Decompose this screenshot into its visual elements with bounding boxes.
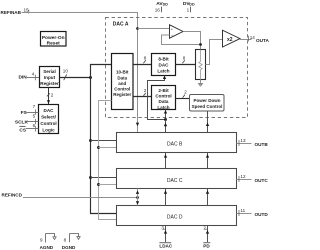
svg-text:PD: PD xyxy=(203,243,210,248)
op-amp x2 output amplifier xyxy=(223,30,241,47)
svg-text:Control: Control xyxy=(155,94,171,99)
ground below resistor string xyxy=(198,80,203,87)
node junction REFINAB at buffer input xyxy=(136,27,139,30)
node LDAC junction xyxy=(164,118,167,121)
wire data bus down to DAC B C D xyxy=(91,78,117,214)
component 10-Bit Data and Control Register xyxy=(112,54,134,110)
block DAC B xyxy=(117,133,237,153)
svg-text:1: 1 xyxy=(187,8,190,13)
svg-text:Speed Control: Speed Control xyxy=(192,104,223,109)
svg-text:DIN: DIN xyxy=(19,75,28,81)
svg-text:Control: Control xyxy=(114,87,130,92)
wire LDAC arrow into 2-bit latch xyxy=(164,110,167,120)
wire 2-bit bus latch to power down control xyxy=(176,90,190,99)
node control stub to DAC B xyxy=(97,146,116,149)
svg-text:Latch: Latch xyxy=(157,105,169,110)
wire control bus from register down to DAC B C D xyxy=(99,101,117,220)
block DAC A dashed box xyxy=(106,18,248,118)
node OUTA pin 14 xyxy=(240,35,270,43)
wire 2-bit bus register to control latch xyxy=(133,88,152,96)
svg-text:DAC: DAC xyxy=(159,63,170,68)
wire CS xyxy=(26,128,39,130)
node REFINAB pin 15 xyxy=(1,8,30,16)
component DAC resistor string R1 xyxy=(196,50,206,80)
box Power-On Reset xyxy=(41,32,67,47)
wire buffer feedback xyxy=(162,35,201,45)
svg-text:9: 9 xyxy=(40,238,43,243)
svg-text:8: 8 xyxy=(64,237,67,242)
node CS pin 6 (active low) xyxy=(19,123,35,134)
svg-text:REFINAB: REFINAB xyxy=(1,10,22,15)
wire 8-bit bus latch to resistor string xyxy=(176,56,196,65)
node control stub to DAC C xyxy=(97,183,116,186)
ground AGND pin 9 xyxy=(40,234,57,250)
component 8-Bit DAC Latch xyxy=(152,54,176,76)
svg-text:4: 4 xyxy=(32,72,35,77)
node DIN pin 4 xyxy=(19,72,36,81)
wire 2-bit to DAC select logic xyxy=(47,88,54,105)
svg-text:CS: CS xyxy=(19,128,26,134)
svg-text:REFINCD: REFINCD xyxy=(2,193,23,198)
wire PD from power down control to DAC B xyxy=(206,111,209,133)
wire 10-bit bus serial register to node xyxy=(60,69,91,81)
node SCLK pin 5 xyxy=(15,114,36,126)
power AVDD pin 16 xyxy=(155,1,169,13)
svg-text:DAC: DAC xyxy=(44,108,55,113)
svg-text:2-Bit: 2-Bit xyxy=(158,88,169,93)
svg-text:AGND: AGND xyxy=(40,245,54,250)
svg-text:13: 13 xyxy=(240,138,246,143)
block DAC C xyxy=(117,169,237,189)
node FS pin 7 xyxy=(21,104,36,116)
power DVDD pin 1 xyxy=(183,1,195,13)
svg-text:16: 16 xyxy=(155,8,161,13)
svg-text:Input: Input xyxy=(44,75,56,80)
wire SCLK xyxy=(27,121,39,123)
svg-text:OUTB: OUTB xyxy=(255,142,269,147)
wire PD between DAC B and DAC C xyxy=(206,153,209,169)
node OUTB pin 13 xyxy=(237,138,269,147)
svg-text:5: 5 xyxy=(33,114,36,119)
svg-text:DD: DD xyxy=(163,3,169,7)
svg-text:14: 14 xyxy=(250,35,256,40)
node PD pin 2 (active low) xyxy=(203,225,210,248)
svg-text:DGND: DGND xyxy=(62,245,76,250)
svg-text:Register: Register xyxy=(40,81,59,86)
svg-text:Select/: Select/ xyxy=(41,114,57,119)
wire REFINCD down into DAC D xyxy=(136,198,139,206)
svg-text:LDAC: LDAC xyxy=(159,243,172,248)
svg-text:2: 2 xyxy=(144,88,147,93)
svg-text:DAC C: DAC C xyxy=(167,178,183,184)
svg-text:12: 12 xyxy=(240,174,246,179)
svg-text:−: − xyxy=(171,33,174,38)
svg-text:Control: Control xyxy=(40,121,56,126)
svg-text:8: 8 xyxy=(183,56,186,61)
node stub to DAC B xyxy=(89,139,116,142)
wire FS xyxy=(26,112,38,114)
svg-text:10: 10 xyxy=(63,69,69,74)
svg-text:DAC D: DAC D xyxy=(167,215,183,221)
wire LDAC arrow into 8-bit latch and jog around control latch xyxy=(148,76,167,120)
node stub to DAC C xyxy=(89,176,116,179)
wire REFINCD xyxy=(23,197,138,199)
svg-text:11: 11 xyxy=(240,208,245,213)
node OUTD pin 11 xyxy=(237,208,269,217)
ground DGND pin 8 xyxy=(62,234,80,250)
wire data bus up into 10-bit register xyxy=(91,65,112,78)
svg-text:15: 15 xyxy=(24,8,30,13)
wire buffer output to resistor string top xyxy=(183,32,201,50)
component Serial Input Register xyxy=(40,67,60,88)
svg-text:DAC A: DAC A xyxy=(113,22,129,28)
svg-text:Serial: Serial xyxy=(43,69,56,74)
op-amp buffer U1 xyxy=(170,25,184,38)
component 2-Bit Control Data Latch xyxy=(152,86,176,110)
svg-text:2: 2 xyxy=(184,90,187,95)
svg-text:Power-On: Power-On xyxy=(42,35,65,41)
svg-text:6: 6 xyxy=(33,123,36,128)
component Power Down Speed Control xyxy=(190,95,225,112)
svg-text:Reset: Reset xyxy=(47,41,60,47)
svg-text:Power Down: Power Down xyxy=(193,98,220,103)
svg-text:Data: Data xyxy=(159,99,169,104)
wire REFINAB to DAC A buffer and down to DAC B xyxy=(22,13,140,133)
wire LDAC down to DAC B xyxy=(164,120,167,133)
svg-text:SCLK: SCLK xyxy=(15,119,29,125)
wire 8-bit bus register to DAC latch xyxy=(133,56,152,65)
svg-text:x2: x2 xyxy=(227,37,233,43)
node bus junction xyxy=(89,76,92,79)
svg-text:3: 3 xyxy=(161,225,164,230)
svg-text:7: 7 xyxy=(33,104,36,109)
svg-text:10-Bit: 10-Bit xyxy=(116,70,129,75)
svg-text:OUTA: OUTA xyxy=(256,38,269,43)
node OUTC pin 12 xyxy=(237,174,269,183)
svg-text:Register: Register xyxy=(113,92,131,97)
svg-text:2: 2 xyxy=(51,92,54,97)
svg-text:OUTD: OUTD xyxy=(255,212,269,217)
svg-text:8-Bit: 8-Bit xyxy=(158,57,169,62)
svg-text:DAC B: DAC B xyxy=(167,142,183,148)
wire REFINCD up into DAC C xyxy=(136,189,139,198)
svg-text:2: 2 xyxy=(203,225,206,230)
svg-text:Latch: Latch xyxy=(157,69,169,74)
wire junction to buffer + input xyxy=(138,28,170,30)
svg-text:Data: Data xyxy=(117,75,127,80)
svg-text:Logic: Logic xyxy=(42,128,55,133)
svg-text:and: and xyxy=(118,81,126,86)
wire DIN to serial input register xyxy=(27,77,40,79)
wire PD between DAC C and DAC D xyxy=(206,189,209,206)
node feedback junction xyxy=(199,43,202,46)
block DAC D xyxy=(117,206,237,226)
wire LDAC between DAC B and DAC C xyxy=(164,153,167,169)
node LDAC pin 3 (active low) xyxy=(159,225,172,248)
svg-text:OUTC: OUTC xyxy=(255,178,269,183)
svg-text:DD: DD xyxy=(189,3,195,7)
svg-text:8: 8 xyxy=(144,56,147,61)
component DAC Select/Control Logic xyxy=(39,105,59,134)
wire resistor tap to x2 amp xyxy=(206,40,223,65)
wire LDAC between DAC C and DAC D xyxy=(164,189,167,206)
node REFINCD junction xyxy=(136,196,139,199)
